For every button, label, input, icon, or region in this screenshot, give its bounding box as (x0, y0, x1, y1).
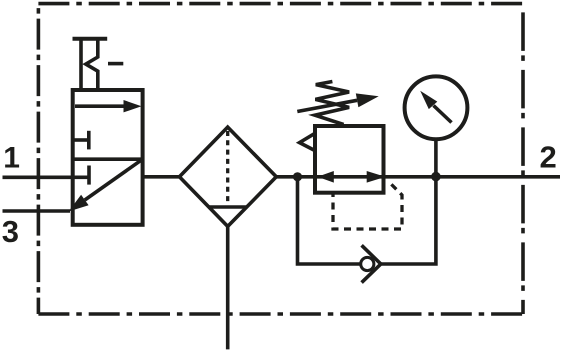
pressure gauge G1 stem (434, 138, 438, 177)
valve V1 actuator detent stem (86, 39, 98, 90)
pressure gauge G1 dial (405, 76, 468, 139)
svg-text:2: 2 (540, 139, 557, 174)
valve V1 blocked port (top position) (74, 131, 89, 150)
regulator R1 adjustment spring (315, 82, 349, 125)
node junction B (431, 172, 441, 182)
valve V1 flow arrow (open position) (75, 100, 142, 112)
wire: port 1 inlet line (3, 176, 75, 180)
wire: filter to regulator (276, 175, 316, 179)
regulator R1 adjustment arrow (297, 93, 378, 111)
regulator R1 relief vent chevron (300, 133, 315, 150)
svg-text:1: 1 (3, 142, 20, 175)
valve V1 manual actuator bar (73, 37, 108, 41)
filter F1 dashed center line (226, 131, 229, 205)
filter F1 separator chord (208, 205, 248, 209)
regulator R1 body (315, 126, 384, 193)
filter F1 drain line (226, 226, 230, 349)
regulator R1 pilot line (dashed) (333, 181, 402, 230)
pressure gauge G1 needle (420, 91, 451, 123)
wire: valve to filter (143, 175, 180, 179)
filter F1 diamond (179, 127, 276, 226)
svg-text:3: 3 (2, 214, 19, 249)
check valve CV1 ball (361, 257, 374, 270)
enclosure border top (dash-dot) (38, 2, 523, 6)
wire: bypass branch down from node A (298, 177, 360, 264)
valve V1 exhaust arrow 2-to-3 (69, 159, 143, 211)
valve V1 actuator minus sign (108, 62, 123, 66)
enclosure border bottom (dash-dot) (38, 312, 523, 316)
valve V1 body (3/2-way on-off valve) (73, 90, 143, 225)
node junction A (293, 172, 302, 181)
check valve CV1 seat chevron (362, 245, 381, 282)
wire: regulator to port 2 (384, 175, 561, 179)
wire: bypass branch up to node B (380, 177, 436, 264)
valve V1 blocked port (bottom position) (74, 166, 89, 185)
wire: port 3 exhaust line (3, 209, 71, 213)
enclosure border left (dash-dot) (37, 4, 41, 314)
valve V1 actuator left stem (79, 39, 83, 90)
enclosure border right (dash-dot) (521, 4, 525, 314)
regulator R1 flow line with arrows (315, 171, 385, 183)
